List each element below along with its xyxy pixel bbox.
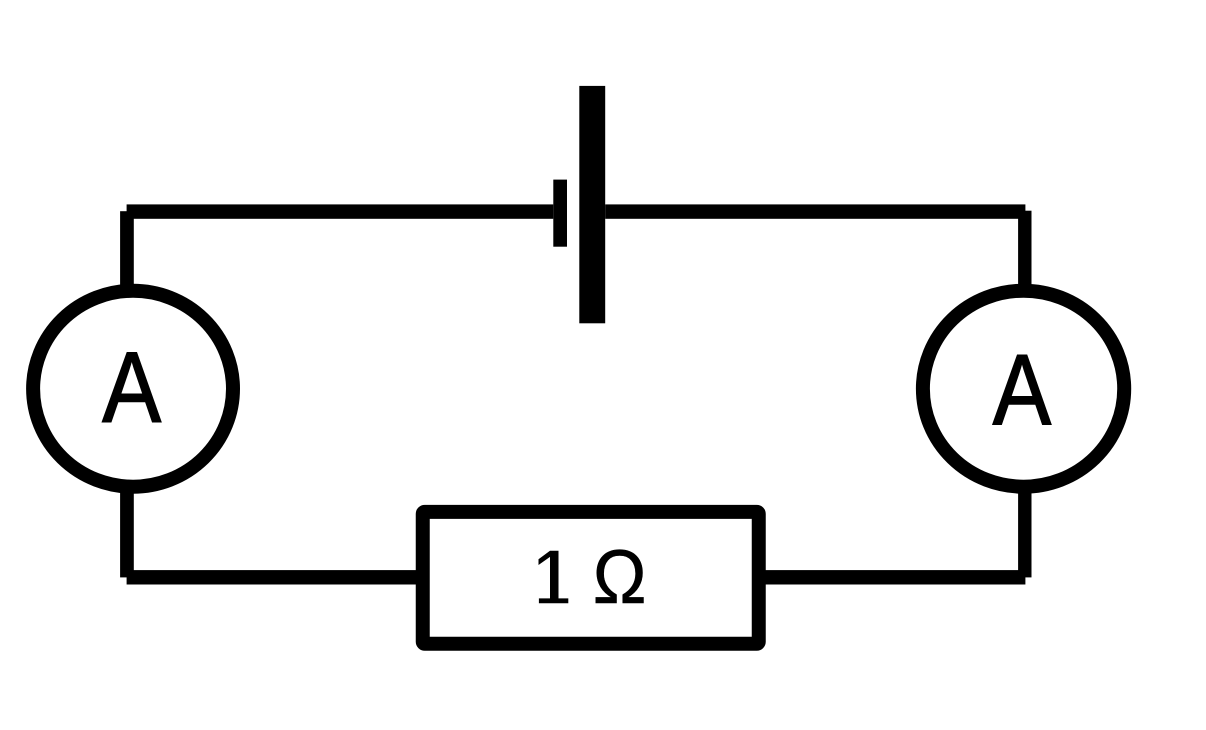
wire: left vertical (through left ammeter) [120,211,134,577]
svg-text:A: A [102,331,161,442]
resistor R1: value label digit '1' [539,551,569,604]
wire: top-right horizontal (battery positive to right ammeter) [605,204,1025,218]
wire: bottom-right horizontal (resistor to right ammeter) [759,570,1026,584]
wire: right vertical (through right ammeter) [1018,211,1031,578]
ammeter A2 (right): circle body [923,291,1124,487]
wire: top-left horizontal (battery negative to left ammeter) [127,204,554,218]
ammeter A1 (left): circle body [33,291,233,487]
wire: bottom-left horizontal (left ammeter to resistor) [127,570,422,584]
battery: short plate (negative terminal) [553,180,567,247]
battery: long plate (positive terminal) [579,86,605,323]
svg-text:A: A [993,334,1052,446]
resistor R1: box body [423,512,759,644]
svg-text:Ω: Ω [593,534,647,619]
